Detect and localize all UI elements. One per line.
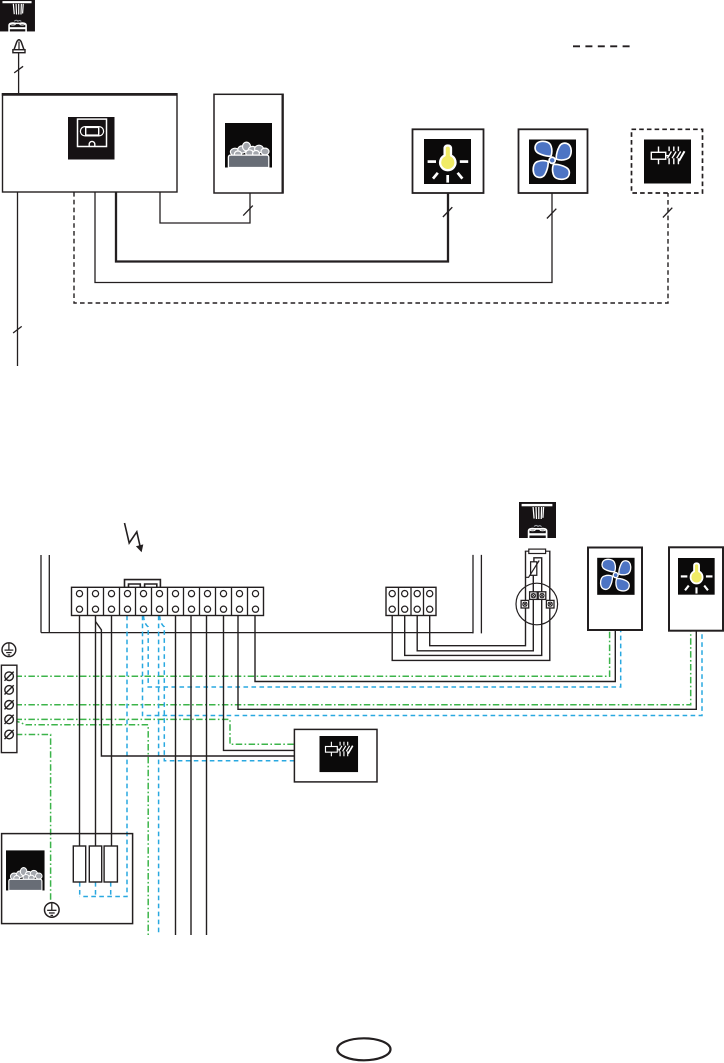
heater box (lower) [2, 834, 133, 924]
cable slash on light wire [443, 207, 452, 217]
wire blue: cell6 exiting down [158, 616, 160, 935]
light icon (lower) [678, 558, 715, 595]
wire: control unit to heater [160, 192, 250, 223]
wire blue: cell6 branch to relay box [160, 616, 295, 761]
wire: thermistor top to block2 [405, 558, 542, 656]
bottom ellipse [337, 1038, 390, 1060]
cable slash on fan wire [547, 209, 556, 219]
wire: cell7 down [175, 616, 177, 935]
wire green: terminal5 to heater earth [16, 735, 51, 903]
heater earth symbol [44, 903, 59, 918]
sensor icon (lower) [519, 502, 556, 538]
wire: cell3 to heater element3 [111, 616, 113, 847]
heater icon (lower) [6, 850, 45, 890]
enclosure left wall [41, 555, 49, 633]
thermistor [531, 562, 537, 576]
fan box (top) [519, 129, 588, 193]
dashed wire: control unit to optional relay [74, 192, 668, 303]
sensor terminals [530, 592, 538, 600]
screw terminals of left block [5, 672, 14, 681]
wire: cell10 to relay box [224, 616, 295, 751]
cable slash on dashed wire [663, 208, 672, 218]
bridge jumper over cells 4-6 [125, 580, 161, 588]
green earth wires (dash-dot) [14, 630, 691, 935]
wire green: terminal3 to light [16, 631, 691, 705]
wire: control unit to light (thick) [116, 192, 448, 262]
wire: thermistor bottom to block3 [417, 575, 533, 651]
cable slash on left lead [13, 326, 22, 333]
main terminal strip [72, 587, 264, 615]
mains supply lightning arrow [125, 523, 141, 549]
earth symbol above left block [2, 643, 16, 657]
wire: cell2 branch to relay box [96, 622, 295, 757]
wire: cell8 down [190, 616, 192, 935]
light box (lower) [669, 547, 723, 630]
wire blue: cell5 to light [143, 616, 703, 716]
wire green: terminal1 to fan [16, 630, 610, 676]
enclosure bottom [41, 632, 473, 634]
left earth terminal block [1, 665, 17, 752]
wire: cell1 to heater element1 [79, 616, 81, 847]
sensor housing top [525, 550, 551, 552]
sensor contact circle [516, 583, 558, 625]
sensor icon (top-left) [0, 0, 35, 31]
wire blue: cell5 branch to fan [144, 616, 621, 687]
fan icon (top) [529, 140, 576, 185]
wire: cell2 to heater element2 [95, 616, 97, 847]
wire: sensor outer right to block1 [392, 551, 550, 660]
relay icon (top) [644, 140, 691, 184]
wire: sensor to control unit [18, 53, 20, 94]
black wires lower diagram [80, 551, 697, 935]
light icon (top) [424, 139, 471, 184]
heating elements [73, 846, 85, 882]
wire green: terminal4 to relay box [16, 719, 295, 744]
control unit icon [68, 117, 115, 160]
fan box (lower) [588, 548, 642, 631]
dashed segment top right [573, 45, 630, 47]
cable slash on sensor wire [14, 66, 23, 73]
relay box (lower) [294, 729, 377, 782]
control unit box [3, 94, 178, 192]
enclosure right wall [473, 555, 481, 634]
heater icon (top) [225, 123, 272, 168]
dashed optional box [632, 129, 703, 193]
cable slash on heater wire [243, 206, 253, 216]
wire: control unit to fan [95, 192, 552, 283]
wire blue: heater element stubs [80, 882, 111, 897]
light box (top) [413, 129, 484, 193]
sensor terminal block (4 pole) [386, 587, 436, 615]
wire: control unit left lead down [17, 192, 19, 366]
heater box (top) [214, 94, 283, 193]
sensor symbol (cone on base) [13, 40, 25, 53]
relay icon (lower) [320, 736, 359, 772]
wire blue: cell4 to heater elements common [80, 616, 127, 897]
wire: cell12 to fan [255, 616, 615, 682]
wire: sensor outer left to block4 [430, 551, 526, 645]
fan icon (lower) [597, 558, 634, 595]
blue wires (dashed) [80, 616, 702, 935]
sensor cap [529, 549, 546, 553]
wire green: terminal4 branch exiting down [14, 720, 149, 935]
wire: cell9 down [206, 616, 208, 935]
wire: cell11 to light [238, 616, 696, 710]
